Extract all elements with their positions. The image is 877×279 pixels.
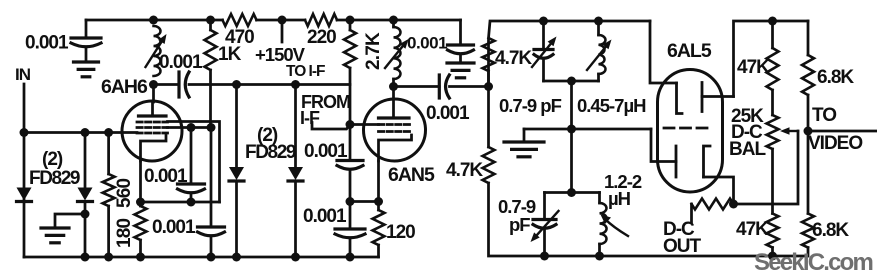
node 6AN5 plate coupling junction [389,82,398,91]
wire 6AN5 plate lead [392,79,395,99]
wire 6AH6 grid bus [24,131,137,134]
node trap1 center tap [567,77,576,86]
wire 6AL5 bottom cathode lead [704,177,734,204]
wire trap1 cap lower lead [542,59,545,81]
ground symbol top-left [74,60,99,63]
node plate coil rail junction [149,16,158,25]
wire cap lead from rail [85,20,88,38]
svg-text:120: 120 [386,222,415,243]
wire trap2 feed [570,129,573,193]
node video tap [804,127,813,136]
wire trap1 coil lower lead [597,74,600,81]
ground symbol mid [504,140,544,143]
wire 6AH6 cathode node [139,161,142,206]
node trap1 coil rail junction [594,17,603,26]
node 2.7K rail junction [346,16,355,25]
svg-text:4.7K: 4.7K [495,48,532,69]
wire cap2 lower lead [210,237,213,257]
wire 2.7K upper lead [349,20,352,30]
inductor variable 1.2-2uH trap2 [600,203,607,244]
tube 6AH6 cathode [141,136,167,162]
wire +150V stub [281,20,284,42]
wire 4.7K-1 lower lead [487,71,490,87]
svg-text:0.001: 0.001 [426,103,470,124]
node cathode junction [136,198,145,207]
resistor 6.8K lower [802,214,814,248]
tube 6AN5 grid rows [379,123,410,126]
wire diode4 lower lead [294,181,297,257]
wire rail cap to ground [459,55,462,63]
tube 6AN5 envelope [364,99,426,161]
svg-text:4.7K: 4.7K [446,160,483,181]
arrow trap2 coil [605,219,628,236]
svg-text:6AH6: 6AH6 [101,76,148,98]
resistor 1K screen feed [205,30,217,70]
node 47K rail bottom junction [768,252,777,261]
capacitor variable 0.7-9pF trap2 [533,218,556,221]
svg-text:0.001: 0.001 [407,34,447,53]
diode FD829 #1 (in IN line) [17,188,32,201]
wire rail end down [459,20,462,45]
wire rail seg4 [337,19,461,22]
resistor d-c out series [692,199,734,210]
svg-text:TO I-F: TO I-F [286,63,325,80]
svg-text:IN: IN [15,65,31,84]
capacitor 0.001 cathode bypass 6AN5 [335,227,365,230]
svg-text:(2): (2) [42,149,63,170]
wire 4.7K top corner [489,21,651,87]
tube 6AN5 cathode [379,135,412,161]
svg-text:47K: 47K [736,219,769,240]
svg-text:0.001: 0.001 [152,217,196,238]
svg-text:FD829: FD829 [245,142,296,163]
node diode2 top junction [81,128,90,137]
svg-text:0.001: 0.001 [304,141,348,162]
wire var coil to rail [392,20,395,27]
svg-text:0.45-7µH: 0.45-7µH [577,95,646,116]
svg-text:I-F: I-F [300,108,320,128]
node diode3 junction [232,80,241,89]
wire 6AL5 top cathode lead [702,95,734,98]
resistor 470 rail [223,14,257,26]
diode FD829 #3 [229,167,244,180]
capacitor 0.001 coupling 6AN5 plate [438,75,441,98]
tube 6AL5 bottom cathode [704,146,711,177]
wire trap2 coil upper lead [598,193,601,204]
tube 6AH6 envelope [122,101,182,161]
wire 120 lower lead [377,245,380,257]
node 180 rail junction [136,253,145,262]
capacitor variable 0.7-9pF trap1 [534,48,553,51]
wire 6.8K top corner [807,21,810,55]
arrow trap1 cap [532,44,551,67]
wire 1K lower lead [209,70,212,128]
node IN-grid junction [20,128,29,137]
wire bottom rail left [24,256,379,259]
wire cap2 lead (from G2 down) [210,128,213,228]
arrow trap1 coil [587,47,606,70]
wire 47K lower lead [771,248,774,257]
tube 6AH6 plate [139,114,167,117]
tube 6AN5 plate [379,116,410,119]
wire cap4 upper lead [349,125,352,161]
wire 6AH6 plate lead [152,85,155,103]
tube 6AL5 top plate [677,83,683,114]
wire 180 lower lead [139,240,142,257]
node ground bus junction [567,125,576,134]
node 560 rail junction [104,253,113,262]
svg-text:470: 470 [225,27,254,48]
wire G3 lead to cathode line [168,122,220,203]
svg-text:6AN5: 6AN5 [388,164,435,186]
svg-text:+150V: +150V [255,44,306,65]
resistor 180 cathode [135,206,147,240]
wire 6.8K lower lead [807,248,810,257]
wire 6AN5 cathode lead [377,161,380,210]
wire signal bus to 2.7K [189,83,350,86]
capacitor 0.001 screen-cathode [178,182,205,185]
node trap1 cap rail junction [539,17,548,26]
node trap2 coil rail junction [595,252,604,261]
wire trap1 coil upper lead [597,21,600,35]
node diode3 rail junction [232,253,241,262]
wire FROM I-F lead [312,123,350,130]
node G2/cap1 junction [187,123,196,132]
svg-text:180: 180 [114,218,135,248]
wire top rail left segment [86,19,154,22]
resistor 120 cathode 6AN5 [373,210,385,245]
wire 6.8K upper lower lead [807,95,810,131]
wire 6.8K lower upper lead [807,131,810,214]
wire trap1 bottom link [544,80,599,83]
resistor 560 (grid return) [103,174,115,206]
tube 6AL5 top cathode [701,83,704,112]
tube 6AH6 grid rows [137,121,168,124]
wire 4.7K lower link [487,87,490,148]
node cap5 rail junction [346,253,355,262]
arrow variable plate coil 6AN5 [385,46,403,68]
wire IN input line [23,84,26,257]
node 6AN5 cathode junction [374,197,383,206]
arrow trap2 cap [537,211,559,235]
node diode2 rail junction [81,253,90,262]
svg-text:TO: TO [812,105,836,126]
node 560 top junction [104,128,113,137]
wire 1K upper lead [209,20,212,30]
svg-text:6AL5: 6AL5 [667,40,712,62]
capacitor 0.001 screen bypass [198,225,225,228]
diode FD829 #4 [288,167,303,180]
wire diode3 lower lead [235,181,238,257]
svg-text:6.8K: 6.8K [817,67,854,88]
wire d-c out drop [690,204,693,222]
wire cap1 upper lead [190,128,193,185]
node plate/coupling junction [149,80,158,89]
capacitor 0.001 grid-cathode 6AN5 [337,159,363,162]
svg-text:0.001: 0.001 [25,33,69,54]
node trap2 cap rail junction [540,252,549,261]
arrow 25K wiper [790,130,799,132]
node 1K rail junction [206,16,215,25]
resistor 25K pot [767,115,779,149]
svg-text:0.7-9 pF: 0.7-9 pF [499,95,562,116]
wire trap2 coil lower lead [598,244,601,256]
wire right rail drop [734,21,809,97]
wire cathode bus [141,201,220,204]
svg-text:pF: pF [509,214,530,235]
resistor 2.7K [344,30,356,68]
wire cap5 lower lead [349,239,352,257]
node dc-out junction [729,200,738,209]
capacitor 0.001 B+ bypass [448,43,474,46]
capacitor 0.001 coupling 6AH6 plate [177,72,180,97]
node diode4 junction [291,80,300,89]
node cap2 rail junction [207,253,216,262]
svg-text:VIDEO: VIDEO [808,133,862,154]
wire coupling2 right lead [450,85,489,88]
wire coupling cap left lead [154,83,180,86]
wire 560 resistor lower lead [107,206,110,257]
wire trap2 cap lower lead [543,229,546,256]
svg-text:560: 560 [114,178,135,208]
capacitor C-in 0.001 top-left [71,36,101,39]
wire cap to ground top-left [85,48,88,62]
wire G2 screen lead [168,126,212,129]
ground symbol rail end [447,61,474,64]
svg-text:6.8K: 6.8K [812,220,849,241]
svg-text:FD829: FD829 [29,168,80,189]
inductor variable plate coil 6AN5 [394,27,401,79]
node cap5 junction [346,197,355,206]
node cap1 cathode junction [187,198,196,207]
wire 6AN5 grid lead [350,123,379,126]
wire 6AL5 top plate feed [650,21,677,83]
inductor variable plate coil 6AH6 [154,26,161,76]
wire 560 resistor upper lead [107,133,110,175]
wire trap2 top link [545,191,600,194]
resistor 4.7K lower [483,147,495,183]
wire trap2 cap upper lead [543,193,546,220]
wire bottom rail right [545,255,808,258]
wire 47K upper lead [771,21,774,48]
ground symbol lower-left [41,226,69,229]
node G2/1K junction [207,123,216,132]
svg-text:220: 220 [307,27,336,48]
wire diode2 line lower [84,202,87,258]
tube 6AL5 envelope [658,70,723,193]
svg-text:BAL: BAL [729,139,766,160]
node diode2 ground-tap [81,210,90,219]
svg-text:47K: 47K [737,57,770,78]
node trap2 top junction [567,188,576,197]
svg-text:0.001: 0.001 [303,206,347,227]
wire dc bal link [734,131,799,204]
node B+ tap [278,16,287,25]
wire 6AN5 plate out [394,85,440,88]
node diode4 rail junction [291,253,300,262]
node 47K rail junction [768,17,777,26]
wire pot to 47K lower [771,149,774,214]
svg-text:0.001: 0.001 [159,52,203,73]
wire diode2 line upper [84,133,87,188]
wire diode4 upper lead [294,85,297,168]
wire ground stub [523,129,526,142]
resistor 47K lower [767,214,779,248]
wire trap1 to ground bus [570,81,573,129]
node 6AN5 grid junction [346,120,355,129]
inductor variable 0.45-7uH trap1 [599,35,606,74]
arrow variable coil 6AH6 [146,42,162,67]
tube 6AL5 bottom plate [675,146,678,177]
svg-text:2.7K: 2.7K [363,32,384,70]
wire to ground symbol 2 [55,214,85,228]
resistor 220 rail [305,14,337,26]
wire cap1 lower lead [190,194,193,202]
node 6AN5 plate rail junction [389,16,398,25]
svg-text:µH: µH [608,188,631,209]
wire cap4 lower lead to cathode [350,171,379,202]
resistor 6.8K upper [802,55,814,95]
node 4.7K junction [484,82,493,91]
wire 6AL5 bottom plate feed [651,129,676,162]
wire ground bus [524,128,651,131]
diode FD829 #2 [78,188,93,201]
wire cap5 upper lead [349,202,352,230]
resistor 47K upper [767,48,779,90]
svg-text:OUT: OUT [663,236,702,257]
wire 2.7K lower lead [349,68,352,125]
wire 47K to pot [771,90,774,115]
wire diode3 upper lead [235,85,238,168]
wire 4.7K-2 lower lead [489,183,545,256]
wire trap1 cap upper lead [542,21,545,50]
resistor 4.7K upper [483,38,495,71]
wire TO VIDEO [808,130,877,133]
svg-text:SeekIC.com: SeekIC.com [754,249,873,276]
tube 6AL5 divider dashes [664,127,707,130]
wire rail seg2 [154,19,223,22]
wire rail seg3 [257,19,306,22]
svg-text:0.001: 0.001 [144,166,188,187]
